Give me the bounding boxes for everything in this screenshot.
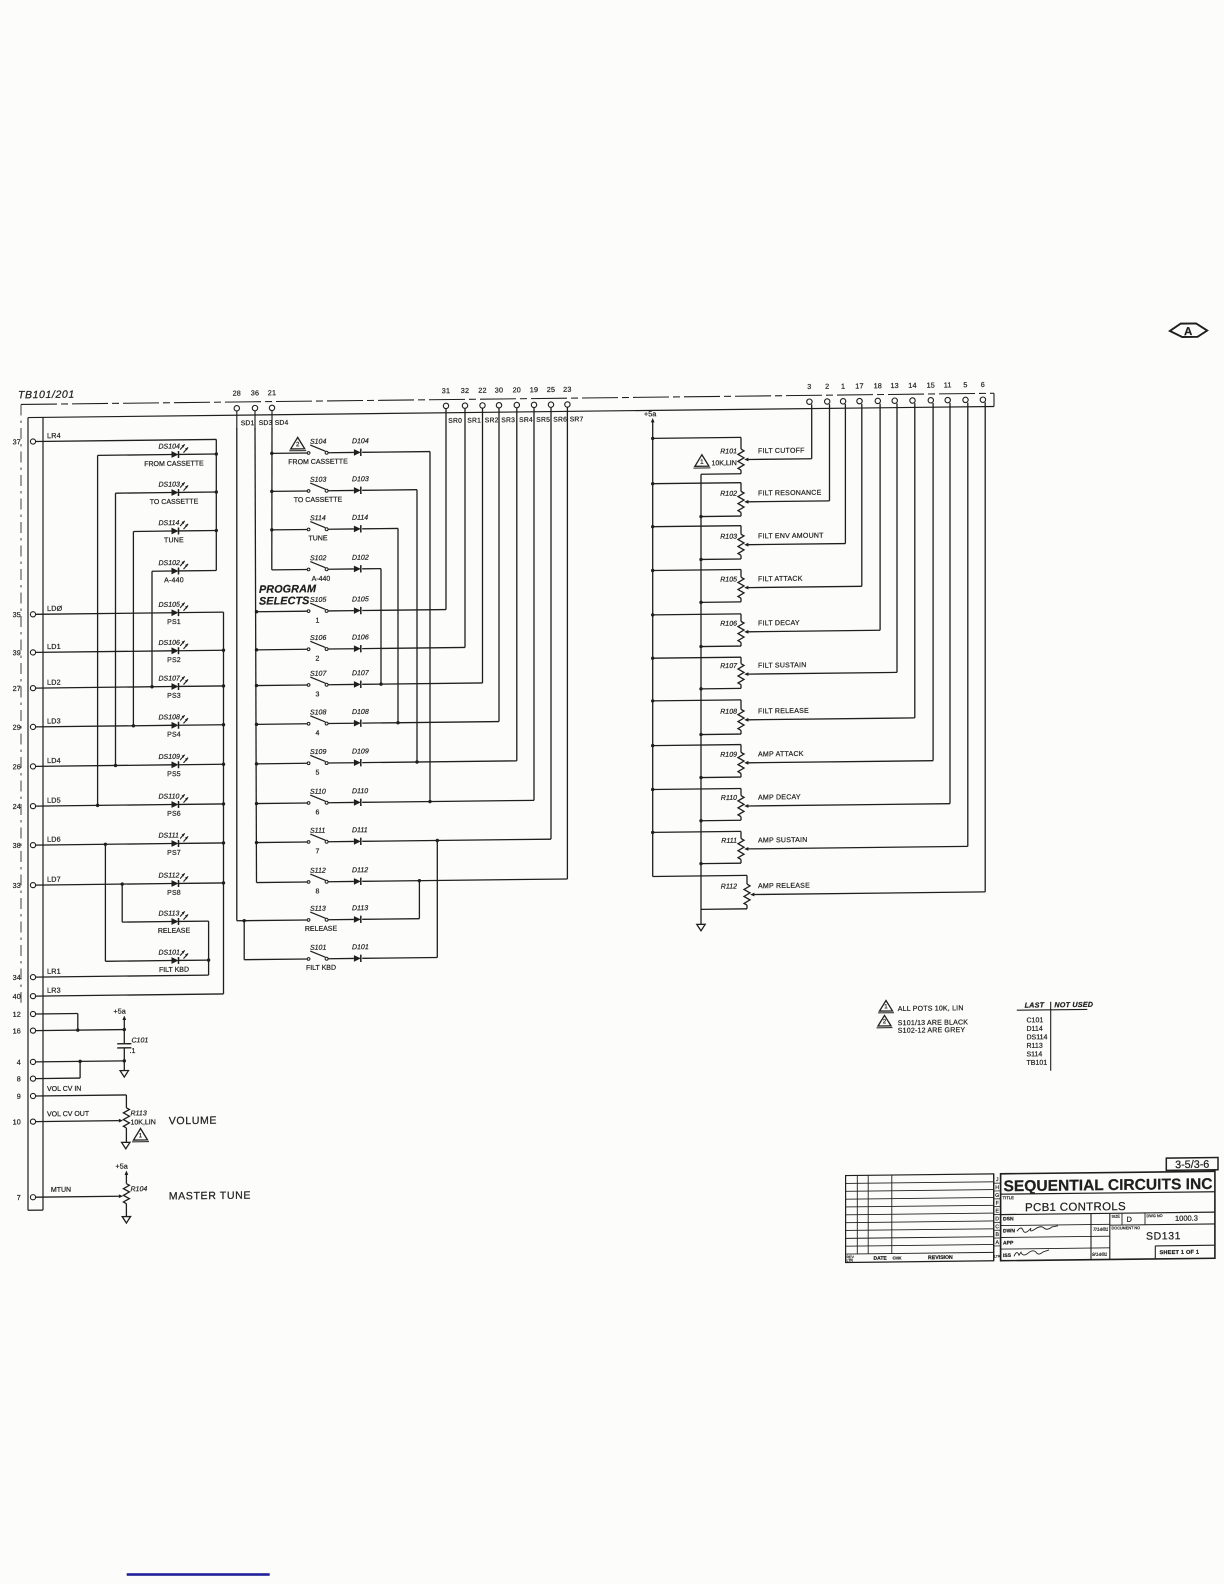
- svg-text:DS102: DS102: [159, 560, 181, 567]
- wire LR3 row from pin 40: [36, 994, 224, 996]
- capacitor C101 value .1: [117, 1029, 148, 1061]
- svg-text:LD1: LD1: [47, 642, 61, 651]
- svg-text:R101: R101: [720, 448, 737, 455]
- terminal pin 38 net LD6: [13, 835, 61, 850]
- svg-text:SR5: SR5: [536, 417, 550, 424]
- svg-text:8: 8: [315, 888, 319, 895]
- switch S110: [255, 789, 328, 818]
- svg-text:C: C: [995, 1224, 999, 1230]
- svg-text:33: 33: [13, 881, 21, 890]
- svg-text:1000.3: 1000.3: [1175, 1214, 1198, 1223]
- terminal strip inner rail (top): [28, 406, 994, 417]
- connector pin 31 (SR0): [442, 386, 450, 408]
- diode D113: [328, 879, 421, 923]
- svg-text:SR4: SR4: [519, 417, 533, 424]
- switch S112: [257, 868, 329, 897]
- connector pin 28 (SD1): [233, 389, 241, 430]
- connector pin 18: [874, 381, 882, 403]
- svg-text:39: 39: [13, 648, 21, 657]
- wire pin 12 to pin 16 row: [36, 1013, 78, 1015]
- svg-text:SR7: SR7: [570, 416, 584, 423]
- svg-text:2: 2: [315, 656, 319, 663]
- svg-text:FILT KBD: FILT KBD: [159, 967, 189, 974]
- power +5a (R104): [116, 1162, 129, 1184]
- wire LR4 bus vertical: [215, 439, 217, 570]
- terminal pin 35 net LDØ: [13, 604, 63, 619]
- warning triangle 1 at R113: [134, 1128, 148, 1140]
- svg-text:DS101: DS101: [159, 949, 181, 956]
- svg-text:S111: S111: [310, 828, 325, 835]
- svg-text:17: 17: [855, 381, 863, 390]
- svg-text:ISS: ISS: [1003, 1253, 1012, 1259]
- svg-text:34: 34: [13, 973, 21, 982]
- connector pin 6: [980, 380, 985, 402]
- svg-text:ALL POTS 10K, LIN: ALL POTS 10K, LIN: [898, 1005, 964, 1013]
- svg-text:A-440: A-440: [164, 577, 184, 584]
- terminal pin 16: [13, 1026, 36, 1035]
- svg-text:PS6: PS6: [167, 811, 181, 818]
- wire SR4 riser to pin 20: [516, 408, 518, 761]
- svg-text:7: 7: [315, 848, 319, 855]
- terminal pin 27 net LD2: [13, 678, 61, 693]
- revision flag A (hexagon, top right): [1170, 323, 1207, 338]
- svg-text:LD6: LD6: [47, 835, 61, 844]
- connector pin 25 (SR6): [547, 385, 555, 407]
- LED DS107 (PS3): [36, 675, 226, 701]
- wire SD4 column: [271, 428, 273, 570]
- svg-text:PS2: PS2: [167, 657, 181, 664]
- potentiometer R101 (FILT CUTOFF): [651, 404, 812, 474]
- svg-text:2: 2: [883, 1018, 887, 1025]
- svg-text:10K,LIN: 10K,LIN: [131, 1119, 156, 1126]
- svg-text:A-440: A-440: [312, 576, 331, 583]
- LED DS112 (PS8): [36, 872, 226, 898]
- svg-text:S102-12 ARE GREY: S102-12 ARE GREY: [898, 1027, 966, 1035]
- svg-text:FILT KBD: FILT KBD: [306, 965, 336, 972]
- svg-text:28: 28: [233, 389, 241, 398]
- svg-text:DWG NO: DWG NO: [1147, 1214, 1163, 1218]
- svg-text:DS104: DS104: [159, 443, 181, 450]
- svg-text:R102: R102: [720, 491, 737, 498]
- svg-text:D114: D114: [1027, 1026, 1043, 1033]
- power +5a (C101): [114, 1007, 127, 1030]
- TB101 outline dash-dot left edge: [20, 404, 22, 1002]
- svg-text:S114: S114: [1027, 1051, 1043, 1058]
- svg-text:S101/13 ARE BLACK: S101/13 ARE BLACK: [898, 1019, 968, 1027]
- blue underline mark bottom left: [127, 1573, 270, 1576]
- svg-text:FROM CASSETTE: FROM CASSETTE: [144, 460, 204, 468]
- svg-text:VOLUME: VOLUME: [169, 1115, 217, 1128]
- svg-text:RELEASE: RELEASE: [305, 926, 338, 933]
- wire LED matrix vertical V2 (DS103 to LD4 row): [115, 493, 117, 765]
- svg-text:4: 4: [315, 730, 319, 737]
- terminal pin 33 net LD7: [13, 875, 61, 890]
- diode D111: [328, 825, 551, 845]
- svg-text:F: F: [996, 1201, 999, 1207]
- svg-text:R107: R107: [720, 663, 738, 670]
- table LAST / NOT USED: [1017, 1000, 1093, 1071]
- wire SR5 riser to pin 19: [533, 408, 535, 801]
- connector pin 19 (SR5): [530, 385, 538, 407]
- svg-text:APP: APP: [1003, 1240, 1014, 1246]
- svg-text:S105: S105: [310, 597, 326, 604]
- diode D112: [328, 865, 567, 886]
- wire pin 4 row: [36, 1061, 125, 1062]
- svg-text:D104: D104: [352, 438, 369, 445]
- svg-text:D111: D111: [352, 827, 368, 834]
- svg-text:S110: S110: [310, 789, 326, 796]
- svg-text:37: 37: [13, 437, 21, 446]
- svg-text:+5a: +5a: [114, 1007, 126, 1016]
- svg-text:18: 18: [874, 381, 882, 390]
- svg-text:R113: R113: [1027, 1043, 1043, 1050]
- connector pin 23 (SR7): [563, 385, 571, 407]
- svg-text:1: 1: [841, 382, 845, 391]
- svg-text:SD3: SD3: [259, 420, 273, 427]
- terminal pin 12: [13, 1010, 36, 1019]
- LED DS111 (PS7): [36, 832, 226, 858]
- svg-text:VOL CV OUT: VOL CV OUT: [47, 1111, 90, 1118]
- svg-text:DS111: DS111: [159, 832, 179, 839]
- svg-text:SD4: SD4: [275, 420, 289, 427]
- svg-text:21: 21: [268, 388, 276, 397]
- svg-text:D106: D106: [352, 634, 369, 641]
- svg-text:DOCUMENT NO: DOCUMENT NO: [1112, 1226, 1141, 1230]
- switch S104: [270, 438, 348, 466]
- potentiometer R107 (FILT SUSTAIN): [651, 403, 897, 691]
- svg-text:FILT CUTOFF: FILT CUTOFF: [758, 448, 805, 456]
- svg-text:D114: D114: [352, 515, 368, 522]
- diode D102: [328, 554, 383, 686]
- wire LR4 row from pin 37: [36, 439, 217, 441]
- connector pin 17: [855, 381, 863, 403]
- svg-text:DS103: DS103: [159, 481, 181, 488]
- connector pin 13: [890, 381, 898, 403]
- svg-text:S109: S109: [310, 749, 326, 756]
- svg-text:SR2: SR2: [485, 417, 499, 424]
- diode D101: [328, 839, 439, 963]
- wire pin 10 (VOL CV OUT) wiper: [36, 1120, 119, 1123]
- svg-text:5: 5: [963, 380, 967, 389]
- svg-text:16: 16: [13, 1026, 21, 1035]
- svg-text:RELEASE: RELEASE: [158, 928, 191, 935]
- svg-text:11: 11: [944, 380, 952, 389]
- svg-text:B: B: [995, 1232, 999, 1238]
- connector pin 2: [825, 382, 830, 404]
- label PROGRAM SELECTS: [259, 583, 317, 607]
- terminal pin 24 net LD5: [13, 796, 61, 811]
- svg-text:SELECTS: SELECTS: [259, 595, 310, 608]
- svg-text:FILT SUSTAIN: FILT SUSTAIN: [758, 662, 807, 670]
- svg-text:22: 22: [478, 386, 486, 395]
- svg-text:S107: S107: [310, 671, 327, 678]
- svg-text:D113: D113: [352, 905, 368, 912]
- svg-text:S103: S103: [310, 477, 326, 484]
- connector pin 1: [840, 382, 845, 404]
- svg-text:TO CASSETTE: TO CASSETTE: [294, 497, 343, 505]
- svg-text:LR3: LR3: [47, 986, 61, 995]
- terminal pin 39 net LD1: [13, 642, 61, 657]
- svg-text:DS107: DS107: [159, 675, 182, 682]
- svg-text:D: D: [1127, 1215, 1133, 1224]
- switch S108: [255, 709, 328, 738]
- diode D105: [328, 595, 446, 614]
- svg-text:25: 25: [547, 385, 555, 394]
- terminal pin 29 net LD3: [13, 716, 61, 731]
- potentiometer R103 (FILT ENV AMOUNT): [651, 404, 845, 562]
- svg-text:S108: S108: [310, 709, 326, 716]
- svg-text:D107: D107: [352, 670, 370, 677]
- svg-text:LTR: LTR: [847, 1259, 854, 1263]
- switch S107: [255, 671, 328, 700]
- terminal pin 7: [17, 1193, 36, 1202]
- wire SR2 riser to pin 22: [482, 408, 484, 683]
- svg-text:PCB1 CONTROLS: PCB1 CONTROLS: [1025, 1201, 1126, 1214]
- diode D110: [328, 786, 534, 806]
- connector pin 3: [807, 382, 812, 404]
- svg-text:SR1: SR1: [467, 417, 481, 424]
- svg-text:A: A: [995, 1240, 999, 1246]
- svg-text:19: 19: [530, 385, 538, 394]
- svg-text:D112: D112: [352, 867, 368, 874]
- svg-text:4: 4: [17, 1058, 21, 1067]
- wire LR1 bus vertical: [208, 921, 210, 975]
- wire pin 9 (VOL CV IN) to R113 top: [36, 1095, 127, 1096]
- wire SR7 riser to pin 23: [566, 407, 568, 879]
- terminal strip left column box: [27, 418, 29, 1211]
- wire SD1 branch to S101: [243, 921, 245, 960]
- LED DS105 (PS1): [36, 601, 224, 627]
- svg-text:SD131: SD131: [1146, 1230, 1181, 1242]
- svg-text:D108: D108: [352, 709, 369, 716]
- svg-text:SR0: SR0: [448, 418, 462, 425]
- svg-text:9: 9: [17, 1092, 21, 1101]
- switch S106: [255, 635, 328, 664]
- svg-text:S102: S102: [310, 555, 326, 562]
- svg-text:38: 38: [13, 841, 21, 850]
- terminal pin 26 net LD4: [13, 756, 61, 771]
- warning triangle 1 at R101 with 10K,LIN: [693, 454, 736, 468]
- svg-text:3: 3: [315, 691, 319, 698]
- svg-text:FILT ATTACK: FILT ATTACK: [758, 576, 803, 584]
- wire +5a bus for pots: [652, 420, 654, 877]
- LED DS106 (PS2): [36, 639, 226, 665]
- connector pin 15: [927, 381, 935, 403]
- svg-text:.1: .1: [130, 1048, 136, 1055]
- terminal pin 34 net LR1: [13, 967, 61, 982]
- svg-text:REVISION: REVISION: [928, 1255, 953, 1261]
- terminal pin 37 net LR4: [13, 431, 61, 446]
- svg-text:E: E: [995, 1209, 999, 1215]
- diode D106: [328, 633, 465, 652]
- terminal pin 8: [17, 1074, 36, 1083]
- svg-text:SD1: SD1: [241, 420, 255, 427]
- svg-text:MTUN: MTUN: [51, 1187, 71, 1194]
- wire LED matrix vertical V5 (LD6 row to DS101): [104, 844, 106, 961]
- svg-text:TUNE: TUNE: [164, 537, 184, 544]
- svg-text:DS110: DS110: [159, 793, 180, 800]
- title block letter strip: [994, 1174, 1001, 1261]
- terminal pin 4: [17, 1057, 36, 1066]
- TB101 outline right end cap: [993, 393, 995, 406]
- svg-text:10K,LIN: 10K,LIN: [712, 460, 737, 467]
- TB101 outline dash-dot top edge: [21, 393, 994, 404]
- title block title row: [1001, 1192, 1215, 1215]
- svg-text:3-5/3-6: 3-5/3-6: [1175, 1159, 1209, 1171]
- potentiometer R112 (AMP RELEASE): [653, 402, 986, 910]
- diode D114: [328, 514, 400, 725]
- LED DS102 (A-440): [152, 560, 216, 585]
- ground (R113): [122, 1142, 130, 1149]
- svg-text:DS114: DS114: [159, 520, 180, 527]
- svg-text:D109: D109: [352, 748, 369, 755]
- svg-text:PS7: PS7: [167, 850, 181, 857]
- diode D107: [328, 669, 482, 689]
- svg-text:LAST: LAST: [1025, 1000, 1045, 1009]
- potentiometer R108 (FILT RELEASE): [651, 403, 915, 737]
- svg-text:7/14/81: 7/14/81: [1093, 1227, 1109, 1232]
- svg-text:PROGRAM: PROGRAM: [259, 583, 317, 596]
- potentiometer R113 10K,LIN (VOLUME): [123, 1108, 155, 1143]
- wire LED matrix vertical V6 (LD7 row to DS113): [121, 884, 123, 922]
- svg-text:VOL CV IN: VOL CV IN: [47, 1086, 81, 1093]
- wire LED matrix vertical V3 (DS114 to LD3 row): [132, 531, 134, 725]
- LED DS108 (PS4): [36, 714, 226, 740]
- svg-text:R109: R109: [720, 752, 737, 759]
- svg-text:+5a: +5a: [644, 409, 656, 418]
- svg-text:TO CASSETTE: TO CASSETTE: [150, 499, 199, 507]
- svg-text:24: 24: [13, 802, 21, 811]
- svg-text:DS105: DS105: [159, 602, 181, 609]
- svg-text:DS106: DS106: [159, 640, 181, 647]
- svg-text:1: 1: [139, 1132, 143, 1139]
- svg-text:TITLE: TITLE: [1003, 1195, 1015, 1200]
- svg-text:26: 26: [13, 762, 21, 771]
- svg-text:6: 6: [315, 809, 319, 816]
- svg-text:10: 10: [13, 1117, 21, 1126]
- wire LR1 row from pin 34: [36, 975, 209, 977]
- wire LED anode bus vertical (PS rows): [223, 612, 225, 994]
- connector pin 30 (SR3): [495, 386, 503, 408]
- svg-text:9/14/81: 9/14/81: [1092, 1252, 1108, 1257]
- svg-text:14: 14: [908, 381, 916, 390]
- svg-text:35: 35: [13, 610, 21, 619]
- potentiometer R104 (MASTER TUNE): [123, 1183, 147, 1216]
- svg-text:S113: S113: [310, 906, 326, 913]
- svg-text:CHK: CHK: [893, 1255, 902, 1260]
- diode D104: [328, 437, 432, 804]
- connector pin 36 (SD3): [251, 388, 259, 429]
- ground (C101): [120, 1071, 128, 1078]
- svg-text:NOT USED: NOT USED: [1054, 1000, 1093, 1009]
- LED DS110 (PS6): [36, 793, 226, 819]
- title block main box: [1001, 1171, 1215, 1260]
- warning triangle 2 at S104: [291, 437, 305, 449]
- svg-text:R113: R113: [131, 1110, 147, 1117]
- svg-text:LD7: LD7: [47, 875, 61, 884]
- terminal pin 40 net LR3: [13, 986, 61, 1001]
- wire SR6 riser to pin 25: [550, 407, 552, 839]
- potentiometer R111 (AMP SUSTAIN): [651, 403, 968, 866]
- svg-text:SR3: SR3: [501, 417, 515, 424]
- svg-text:S112: S112: [310, 868, 326, 875]
- connector pin 32 (SR1): [461, 386, 469, 408]
- svg-text:FROM CASSETTE: FROM CASSETTE: [288, 458, 348, 466]
- LED DS101 (FILT KBD): [105, 949, 210, 975]
- ground (pot chain): [697, 924, 705, 931]
- note 2: switch colours: [877, 1014, 969, 1035]
- svg-text:DATE: DATE: [874, 1256, 888, 1262]
- svg-text:D110: D110: [352, 788, 368, 795]
- LED DS113 (RELEASE): [122, 910, 208, 935]
- svg-text:1: 1: [700, 459, 704, 466]
- svg-text:1: 1: [884, 1003, 888, 1010]
- wire SR3 riser to pin 30: [498, 408, 500, 722]
- svg-text:S101: S101: [310, 945, 326, 952]
- connector pin 22 (SR2): [478, 386, 486, 408]
- svg-text:TB101/201: TB101/201: [18, 389, 75, 402]
- connector pin 5: [963, 380, 968, 402]
- svg-text:FILT RESONANCE: FILT RESONANCE: [758, 490, 822, 498]
- terminal pin 9: [17, 1092, 36, 1101]
- svg-text:R103: R103: [720, 534, 737, 541]
- svg-text:7: 7: [17, 1193, 21, 1202]
- svg-text:FILT RELEASE: FILT RELEASE: [758, 708, 809, 716]
- svg-text:R112: R112: [721, 883, 737, 890]
- svg-text:20: 20: [513, 385, 521, 394]
- LED DS114 (TUNE): [133, 519, 218, 544]
- svg-text:D103: D103: [352, 476, 369, 483]
- svg-text:PS4: PS4: [167, 732, 181, 739]
- svg-text:AMP SUSTAIN: AMP SUSTAIN: [758, 837, 808, 845]
- svg-text:PS1: PS1: [167, 619, 181, 626]
- ground (R104): [122, 1216, 130, 1223]
- svg-text:36: 36: [251, 388, 259, 397]
- svg-text:3: 3: [807, 382, 811, 391]
- svg-text:PS8: PS8: [167, 890, 181, 897]
- wire LED matrix vertical V1 (DS104 to LD5 row): [97, 455, 99, 805]
- svg-text:27: 27: [13, 684, 21, 693]
- svg-text:D: D: [995, 1216, 999, 1222]
- svg-text:SHEET 1 OF 1: SHEET 1 OF 1: [1160, 1250, 1200, 1256]
- diode D103: [328, 475, 419, 764]
- svg-text:LD3: LD3: [47, 716, 61, 725]
- svg-text:TUNE: TUNE: [308, 535, 327, 542]
- svg-text:PS3: PS3: [167, 693, 181, 700]
- svg-text:PS5: PS5: [167, 771, 181, 778]
- wire pot ground chain: [700, 474, 702, 924]
- potentiometer R110 (AMP DECAY): [651, 403, 950, 823]
- svg-text:MASTER TUNE: MASTER TUNE: [169, 1190, 251, 1203]
- connector pin 21 (SD4): [268, 388, 276, 429]
- switch S105: [255, 597, 328, 626]
- svg-text:23: 23: [563, 385, 571, 394]
- svg-text:DS113: DS113: [159, 910, 180, 917]
- svg-text:29: 29: [13, 723, 21, 732]
- svg-text:S106: S106: [310, 635, 326, 642]
- wire SR1 riser to pin 32: [464, 408, 466, 647]
- svg-text:2: 2: [296, 441, 300, 448]
- svg-text:D102: D102: [352, 555, 369, 562]
- terminal pin 10: [13, 1117, 36, 1126]
- title block signature rows: [1001, 1215, 1110, 1259]
- svg-text:DSN: DSN: [1003, 1216, 1014, 1222]
- diode D109: [328, 747, 517, 767]
- svg-text:AMP ATTACK: AMP ATTACK: [758, 751, 804, 759]
- svg-text:R106: R106: [720, 621, 737, 628]
- switch S101: [244, 944, 336, 972]
- svg-text:DS108: DS108: [159, 714, 181, 721]
